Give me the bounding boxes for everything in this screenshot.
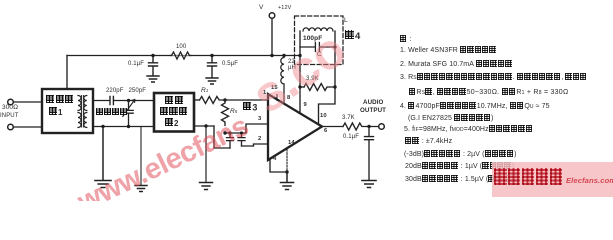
transformer T1 secondary [84,96,87,128]
label 注4 [345,30,360,42]
pin 1 [263,90,266,96]
pin 9 [304,102,307,108]
value label 3.7K [342,115,355,121]
red watermark band bottom right [492,162,613,197]
pin 8 [287,95,290,101]
trimmer capacitor 250pF [124,101,133,127]
ground cap left [147,76,159,82]
wire drop to ground A [102,127,104,181]
inductor L tank [303,28,333,31]
pin 2 [258,136,261,142]
value label 0.5uF [222,61,238,67]
resistor 100 [170,52,191,59]
inductor 22uH [281,56,284,104]
label 300 ohm input [2,104,18,111]
wire gnd rail right [194,125,214,127]
trimmer arrow [123,100,135,117]
designator R5 [230,108,237,115]
label V supply [259,4,263,11]
value label 250pF [129,88,147,94]
resistor R5 [222,100,229,125]
wire drop to ground C [205,126,207,182]
node pin4/14 gnd [285,170,288,173]
capacitor C-a [227,133,234,148]
designator R1 [201,87,208,94]
wire to pin1 [225,99,268,101]
wire tank left / pin9 [299,31,301,113]
ground cap right [206,78,218,84]
label AUDIO OUTPUT [363,99,383,106]
terminal input bottom [8,124,14,130]
wire cap-b to pin2 [242,144,269,146]
ground U1 [281,183,294,190]
wire filter output [194,99,200,101]
node gnd rail trimmer [127,125,130,128]
wire pin15 stub [276,95,278,101]
designator C [317,51,322,58]
wire tuner top feed [66,56,68,90]
value label 100 [176,44,186,50]
node trimmer top [127,99,130,102]
pin 14 [288,140,295,146]
resistor 3.9K [304,84,335,91]
terminal input top [8,99,14,105]
ground C [200,183,213,190]
wire V+ drop [271,18,273,55]
label 注3 [243,102,258,112]
terminal audio output [379,124,385,130]
ground output [362,181,376,188]
op-amp U1 [268,94,322,160]
wire tank right [319,31,336,124]
terminal V+ [269,13,275,19]
pin 10 [320,113,327,119]
node output cap [367,125,370,128]
wire pin14 dotted [286,150,288,173]
wire ground rail left [93,126,154,128]
pin 15 [271,85,278,91]
pin 6 [324,128,327,134]
wire input top [13,101,42,103]
value label 3.9K [306,76,319,82]
node choke top [282,54,285,57]
capacitor 0.1uF out [365,127,374,181]
capacitor 0.1uF left [149,56,158,76]
node V+ rail [270,54,273,57]
wire IF output [93,100,110,102]
ceramic filter block 注2 [154,93,194,132]
node rail tank [298,54,301,57]
resistor 3.7K [343,123,379,130]
node R1 right [223,98,226,101]
value label 100pF [303,35,322,42]
node gnd drop C [204,124,207,127]
capacitor C tank 100pF [300,43,335,52]
node tank C right [333,45,336,48]
node cap1 top [228,131,231,134]
wire cap-a bottom to gnd rail [214,126,230,148]
capacitor 0.5uF right [208,56,217,78]
label 中频输出 [96,108,127,117]
pin 4 [273,156,276,162]
red watermark diagonal [73,110,254,219]
notes text [400,35,411,43]
wire pin3 net [225,124,268,133]
label 调谐器 注1 [46,95,73,105]
transformer T1 primary [78,96,81,128]
node gnd rail A [101,125,104,128]
node R5 bottom [223,131,226,134]
wire top rail [67,55,300,57]
value label 0.1uF output [343,134,359,140]
resistor R1 [200,97,226,104]
node 3.9K left [298,85,301,88]
wire drop to ground U1 [286,172,288,182]
wire 220pF to trimmer node [114,100,154,102]
wire pin4 [270,159,287,172]
capacitor C-b [238,133,245,146]
pin 3 [258,116,261,122]
node cap 0.5uF [210,54,213,57]
label 陶瓷滤波器 注2 [165,96,183,106]
node 3.9K right [333,85,336,88]
value label 22uH [288,59,296,71]
designator L [344,17,348,24]
capacitor 220pF [110,97,113,105]
dashed box 注4 [295,16,344,65]
wire drop to ground B [140,127,142,186]
tuner block 注1 [42,89,93,133]
value label 0.1uF [128,61,144,67]
wire output [322,126,343,128]
ground B [135,186,147,192]
node cap 0.1uF [151,54,154,57]
ground A [95,181,111,188]
transformer T1 core [82,96,84,128]
node cap2 top [240,131,243,134]
wire input bottom [13,126,42,128]
label +12V [278,5,291,11]
value label 220pF [106,88,124,94]
